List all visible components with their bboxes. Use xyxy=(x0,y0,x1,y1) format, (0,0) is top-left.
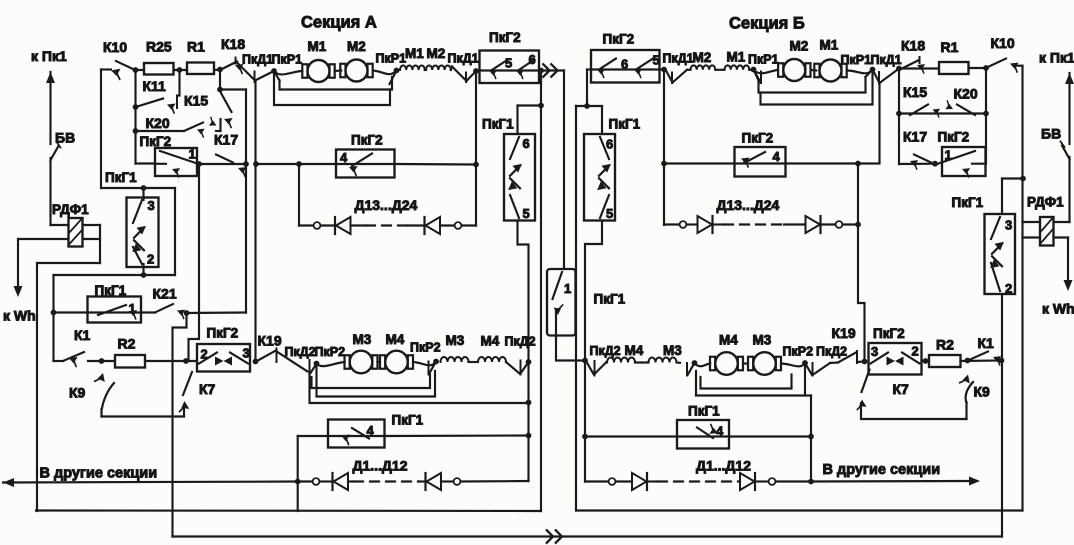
svg-text:5: 5 xyxy=(606,206,613,221)
svg-text:4: 4 xyxy=(716,424,724,439)
svg-text:5: 5 xyxy=(523,206,530,221)
svg-text:3: 3 xyxy=(871,344,878,359)
svg-text:к Пк1: к Пк1 xyxy=(31,48,67,64)
svg-text:ПкР2: ПкР2 xyxy=(315,345,346,359)
svg-text:К18: К18 xyxy=(901,38,925,54)
svg-text:М4: М4 xyxy=(625,343,644,358)
svg-text:R1: R1 xyxy=(941,39,959,55)
svg-text:ПкР2: ПкР2 xyxy=(783,345,814,359)
svg-text:К15: К15 xyxy=(903,84,927,100)
svg-text:Секция А: Секция А xyxy=(301,14,377,32)
svg-text:К21: К21 xyxy=(153,286,177,302)
svg-text:М3: М3 xyxy=(353,332,372,347)
svg-text:2: 2 xyxy=(912,344,919,359)
svg-text:М1: М1 xyxy=(308,39,327,54)
svg-text:М2: М2 xyxy=(427,46,446,61)
svg-text:ПкГ2: ПкГ2 xyxy=(489,30,521,45)
svg-text:ПкГ1: ПкГ1 xyxy=(95,283,127,298)
svg-text:ПкР2: ПкР2 xyxy=(410,341,441,355)
svg-text:ПкД1: ПкД1 xyxy=(871,53,902,67)
svg-text:Д13...Д24: Д13...Д24 xyxy=(355,197,418,213)
svg-text:6: 6 xyxy=(606,137,613,152)
svg-text:В другие секции: В другие секции xyxy=(823,462,941,478)
svg-text:РДФ1: РДФ1 xyxy=(1027,195,1064,210)
svg-text:ПкГ2: ПкГ2 xyxy=(351,133,383,148)
svg-text:М2: М2 xyxy=(693,50,712,65)
svg-text:М4: М4 xyxy=(386,332,405,347)
svg-text:ПкД2: ПкД2 xyxy=(505,335,536,349)
svg-text:К1: К1 xyxy=(74,327,91,343)
svg-text:К7: К7 xyxy=(893,381,910,397)
svg-text:К10: К10 xyxy=(103,39,127,55)
svg-text:к Пк1: к Пк1 xyxy=(1039,50,1074,66)
svg-text:ПкД1: ПкД1 xyxy=(242,53,273,67)
svg-text:Д1...Д12: Д1...Д12 xyxy=(353,458,408,474)
svg-text:К19: К19 xyxy=(258,333,282,349)
svg-text:ПкР1: ПкР1 xyxy=(272,53,303,67)
svg-text:М1: М1 xyxy=(820,38,839,53)
svg-text:К1: К1 xyxy=(978,335,995,351)
svg-text:К19: К19 xyxy=(832,325,856,341)
svg-text:М4: М4 xyxy=(481,334,500,349)
svg-text:2: 2 xyxy=(1005,281,1012,296)
svg-text:ПкГ1: ПкГ1 xyxy=(392,413,424,428)
svg-text:ПкГ2: ПкГ2 xyxy=(873,326,905,341)
svg-text:5: 5 xyxy=(653,53,660,68)
svg-text:R1: R1 xyxy=(187,39,205,55)
svg-text:Секция Б: Секция Б xyxy=(729,15,805,33)
svg-text:К20: К20 xyxy=(146,115,170,131)
svg-text:М4: М4 xyxy=(719,333,738,348)
svg-text:К17: К17 xyxy=(214,132,238,148)
svg-text:ПкГ1: ПкГ1 xyxy=(609,117,641,132)
svg-text:К7: К7 xyxy=(199,381,216,397)
svg-text:ПкГ1: ПкГ1 xyxy=(952,195,984,210)
svg-text:Д13...Д24: Д13...Д24 xyxy=(717,197,780,213)
svg-text:ПкР1: ПкР1 xyxy=(748,53,779,67)
svg-text:Д1...Д12: Д1...Д12 xyxy=(696,458,751,474)
svg-text:БВ: БВ xyxy=(55,130,75,146)
svg-text:R2: R2 xyxy=(936,337,954,353)
svg-text:ПкГ1: ПкГ1 xyxy=(482,117,514,132)
svg-text:к Wh: к Wh xyxy=(3,308,36,324)
svg-text:ПкГ2: ПкГ2 xyxy=(938,130,970,145)
svg-text:М3: М3 xyxy=(663,343,682,358)
svg-text:4: 4 xyxy=(367,423,375,438)
svg-text:М1: М1 xyxy=(727,50,746,65)
svg-text:ПкД2: ПкД2 xyxy=(816,345,847,359)
svg-text:БВ: БВ xyxy=(1041,126,1061,142)
svg-text:К9: К9 xyxy=(974,384,991,400)
svg-text:К10: К10 xyxy=(991,35,1015,51)
svg-text:ПкГ1: ПкГ1 xyxy=(105,170,137,185)
svg-text:К11: К11 xyxy=(143,78,167,94)
svg-text:ПкГ1: ПкГ1 xyxy=(594,292,626,307)
svg-text:1: 1 xyxy=(564,281,571,296)
svg-text:К15: К15 xyxy=(184,93,208,109)
svg-text:к Wh: к Wh xyxy=(1042,301,1074,317)
svg-text:В другие секции: В другие секции xyxy=(40,466,158,482)
svg-text:2: 2 xyxy=(147,252,154,267)
svg-text:ПкР1: ПкР1 xyxy=(376,52,407,66)
svg-text:ПкД2: ПкД2 xyxy=(285,345,316,359)
svg-text:3: 3 xyxy=(148,198,155,213)
svg-text:ПкД1: ПкД1 xyxy=(448,52,479,66)
svg-text:3: 3 xyxy=(1005,218,1012,233)
svg-text:4: 4 xyxy=(340,150,348,165)
svg-text:ПкД1: ПкД1 xyxy=(663,52,694,66)
svg-text:М1: М1 xyxy=(405,46,424,61)
svg-text:6: 6 xyxy=(621,57,628,72)
svg-text:6: 6 xyxy=(529,52,536,67)
svg-text:6: 6 xyxy=(523,136,530,151)
svg-text:К17: К17 xyxy=(903,129,927,145)
svg-text:5: 5 xyxy=(505,56,512,71)
svg-text:М2: М2 xyxy=(347,39,366,54)
svg-text:R2: R2 xyxy=(118,336,136,352)
svg-text:М2: М2 xyxy=(790,39,809,54)
svg-text:К20: К20 xyxy=(954,86,978,102)
svg-text:К18: К18 xyxy=(221,36,245,52)
svg-text:ПкГ1: ПкГ1 xyxy=(688,404,720,419)
svg-text:4: 4 xyxy=(773,149,781,164)
svg-text:РДФ1: РДФ1 xyxy=(52,202,89,217)
svg-text:3: 3 xyxy=(243,346,250,361)
svg-text:К9: К9 xyxy=(69,385,86,401)
svg-text:М3: М3 xyxy=(753,333,772,348)
svg-text:ПкД2: ПкД2 xyxy=(590,344,621,358)
svg-text:ПкГ2: ПкГ2 xyxy=(742,131,774,146)
svg-text:ПкГ2: ПкГ2 xyxy=(207,326,239,341)
svg-text:ПкГ2: ПкГ2 xyxy=(603,32,635,47)
svg-text:М3: М3 xyxy=(446,333,465,348)
svg-text:1: 1 xyxy=(189,147,196,162)
svg-text:ПкР1: ПкР1 xyxy=(841,53,872,67)
svg-text:R25: R25 xyxy=(146,39,172,55)
svg-text:ПкГ2: ПкГ2 xyxy=(140,134,172,149)
